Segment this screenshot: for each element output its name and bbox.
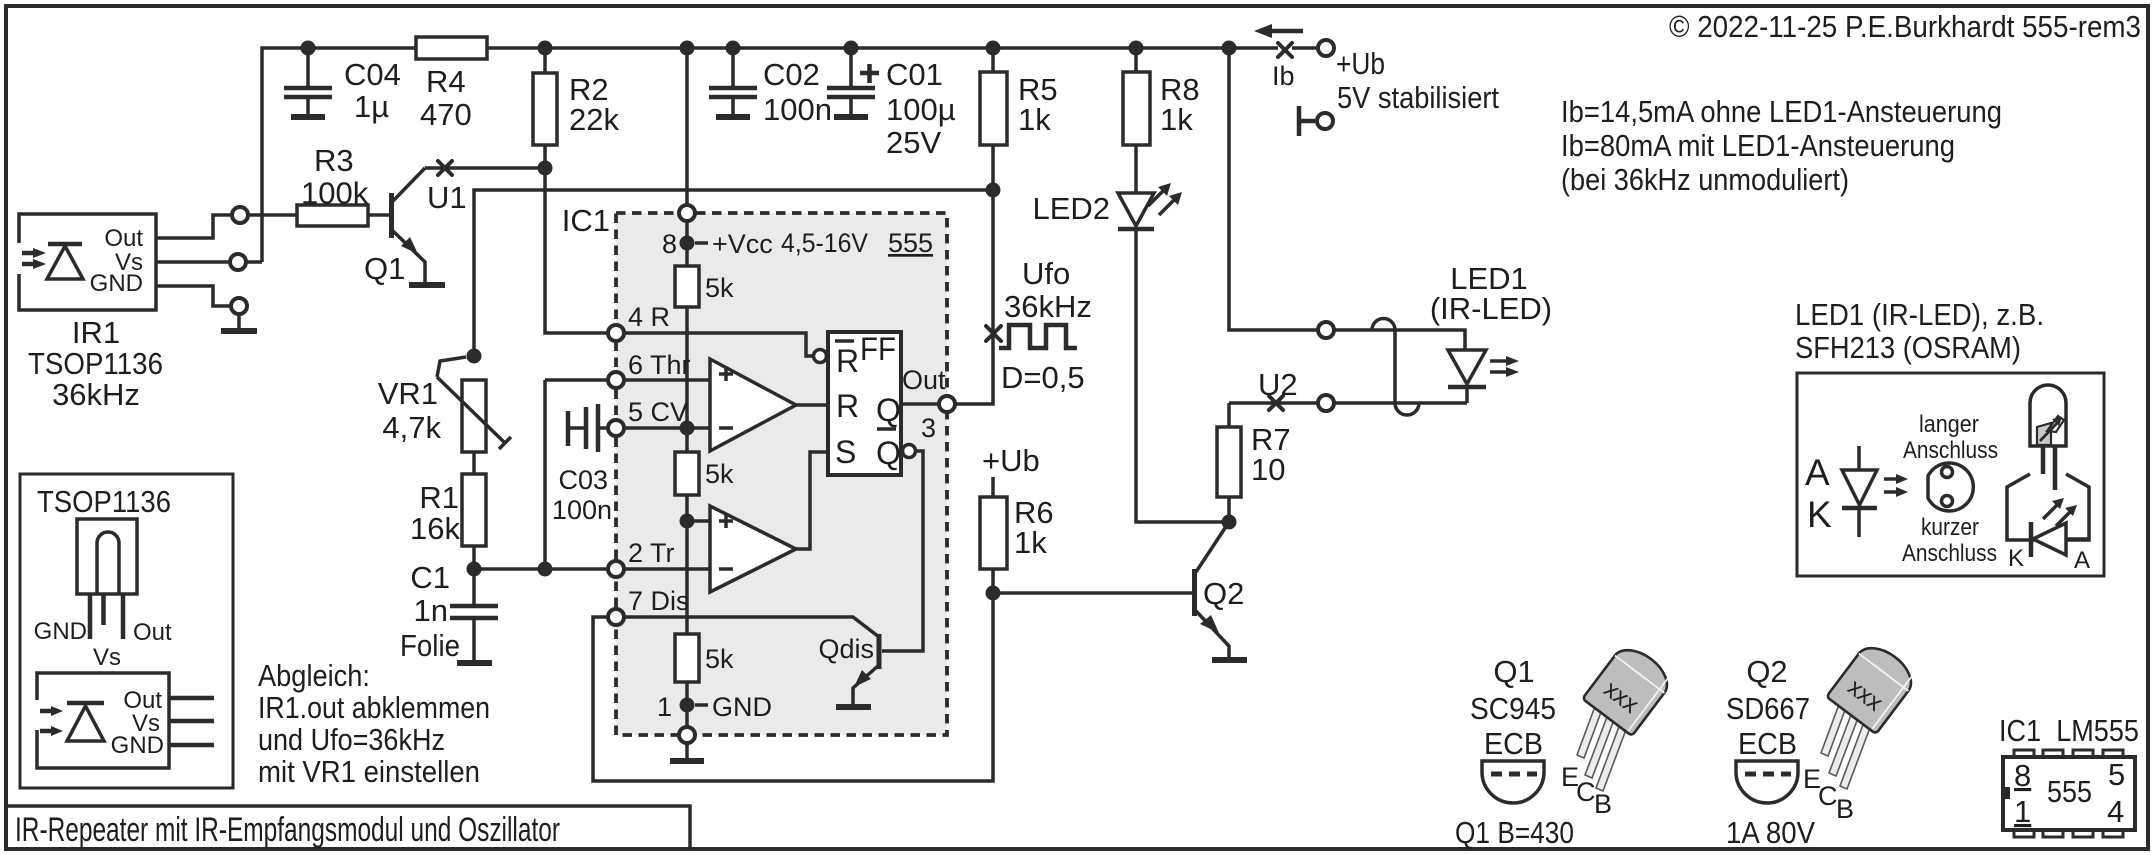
wire pin5 to comp1 minus	[625, 426, 712, 430]
svg-text:GND: GND	[90, 270, 143, 297]
node VR1 top	[467, 349, 482, 364]
node Thr-Tr tie	[538, 562, 553, 577]
node rail-R2	[538, 41, 553, 56]
ground C02	[716, 114, 750, 120]
svg-text:1µ: 1µ	[354, 89, 389, 124]
wire rail to pin8	[685, 48, 689, 205]
svg-text:4: 4	[2107, 794, 2124, 829]
Q2 TO-92 3D view	[1821, 699, 1874, 789]
svg-text:C04: C04	[344, 57, 401, 92]
LED LED1 (IR-LED)	[1430, 261, 1552, 403]
svg-text:Abgleich:: Abgleich:	[258, 658, 370, 693]
op-amp comparator 1	[710, 359, 796, 451]
wire pin3 to output node	[955, 190, 993, 404]
op-amp comparator 2	[710, 506, 796, 592]
svg-text:7 Dis: 7 Dis	[628, 586, 690, 616]
terminal LED1 plug upper	[1318, 322, 1334, 338]
wire LED2 cathode down	[1136, 229, 1229, 522]
LED housing side view	[2007, 474, 2090, 574]
svg-text:C03: C03	[558, 465, 608, 495]
svg-text:langer: langer	[1919, 411, 1979, 438]
label kurzer Anschluss	[1902, 514, 1997, 567]
svg-text:TSOP1136: TSOP1136	[28, 346, 163, 381]
LED LED2	[1032, 183, 1182, 229]
ground Qdis emitter	[836, 704, 871, 710]
TSOP package front view	[34, 519, 172, 671]
svg-text:FF: FF	[860, 331, 896, 367]
Q1 TO-92 bottom view	[1482, 761, 1544, 803]
svg-text:+Vcc: +Vcc	[712, 229, 773, 259]
svg-text:GND: GND	[712, 692, 772, 722]
resistor 5k (middle divider)	[675, 452, 734, 495]
wire divider mid-low	[685, 495, 689, 634]
resistor R1	[410, 474, 486, 546]
svg-text:5k: 5k	[705, 459, 734, 489]
measurement point Ib (X mark + arrow)	[1254, 24, 1303, 91]
svg-text:36kHz: 36kHz	[52, 377, 140, 412]
resistor R8	[1123, 48, 1200, 192]
label Ib notes	[1561, 94, 2002, 197]
measurement point Ufo (X mark + square wave)	[986, 256, 1092, 395]
svg-text:Folie: Folie	[400, 628, 460, 663]
TSOP block symbol	[34, 673, 214, 768]
op-amp IC1 555 dashed body	[562, 203, 947, 735]
labels Q2 E C B	[1803, 764, 1854, 824]
svg-text:K: K	[1807, 494, 1832, 535]
svg-text:8: 8	[2014, 758, 2031, 793]
ground Q1 emitter	[409, 282, 445, 288]
svg-text:5: 5	[2108, 757, 2125, 792]
node rail-pin8	[680, 41, 695, 56]
svg-text:1: 1	[2014, 794, 2031, 829]
resistor R2	[533, 48, 619, 168]
svg-text:B: B	[1594, 789, 1612, 819]
svg-text:5V stabilisiert: 5V stabilisiert	[1337, 80, 1499, 115]
capacitor C04	[284, 48, 401, 124]
ground C1	[457, 660, 492, 666]
ground 555 pin1	[670, 743, 704, 761]
svg-text:Q2: Q2	[1746, 654, 1787, 689]
Q2 TO-92 bottom view	[1736, 761, 1798, 803]
svg-text:SC945: SC945	[1470, 691, 1556, 726]
svg-text:10: 10	[1251, 452, 1285, 487]
svg-text:470: 470	[420, 97, 472, 132]
wire LED1 twisted pair crossover	[1393, 330, 1397, 403]
pin 3 terminal	[939, 396, 955, 412]
svg-text:Q: Q	[876, 392, 901, 428]
wire Q1 collector to R2 node	[425, 166, 545, 170]
resistor R7	[1217, 403, 1291, 522]
node CV-divider	[680, 421, 695, 436]
wire pin4 to FF reset	[625, 333, 813, 356]
svg-text:ECB: ECB	[1484, 726, 1543, 761]
title bar	[6, 806, 690, 849]
terminal +Ub	[1318, 40, 1334, 56]
pin 2 terminal	[608, 561, 624, 577]
resistor R5	[980, 48, 1058, 190]
LED bottom view pinout	[1928, 463, 1973, 511]
svg-text:1A 80V: 1A 80V	[1726, 815, 1815, 850]
svg-text:A: A	[2074, 547, 2090, 574]
svg-text:R4: R4	[426, 64, 466, 99]
capacitor C1	[400, 560, 498, 663]
svg-text:C: C	[1576, 777, 1596, 807]
svg-text:(IR-LED): (IR-LED)	[1430, 291, 1552, 326]
node R6-Q2base	[986, 586, 1001, 601]
transistor Qdis	[818, 634, 879, 705]
wire pin6 tie line	[543, 380, 547, 569]
label Abgleich instructions	[258, 658, 490, 789]
wire FF Qbar to Qdis base	[882, 451, 923, 651]
svg-text:100n: 100n	[763, 92, 832, 127]
svg-text:6 Thr: 6 Thr	[628, 350, 691, 380]
pin 5 terminal	[608, 420, 624, 436]
wire Out terminal to R3	[249, 213, 297, 217]
TSOP1136 detail box	[20, 474, 233, 788]
svg-text:SD667: SD667	[1726, 691, 1810, 726]
svg-text:und Ufo=36kHz: und Ufo=36kHz	[258, 722, 445, 757]
svg-text:Q1: Q1	[364, 251, 405, 286]
svg-text:LED1 (IR-LED), z.B.: LED1 (IR-LED), z.B.	[1795, 297, 2044, 332]
transistor Q2 package info	[1726, 654, 1810, 761]
svg-text:Qdis: Qdis	[818, 634, 874, 664]
svg-text:K: K	[2008, 545, 2024, 572]
node rail-R8	[1129, 41, 1144, 56]
svg-text:Ib: Ib	[1272, 61, 1295, 91]
terminal IR1-Vs	[230, 254, 246, 270]
svg-text:5k: 5k	[705, 644, 734, 674]
svg-text:5k: 5k	[705, 273, 734, 303]
node R2-bottom	[538, 161, 553, 176]
capacitor C02	[709, 48, 832, 127]
svg-text:mit VR1 einstellen: mit VR1 einstellen	[258, 754, 480, 789]
svg-text:VR1: VR1	[378, 376, 438, 411]
svg-text:(bei 36kHz unmoduliert): (bei 36kHz unmoduliert)	[1561, 162, 1849, 197]
resistor R4	[416, 37, 487, 132]
svg-text:IC1 LM555: IC1 LM555	[1999, 713, 2139, 748]
svg-text:GND: GND	[111, 732, 164, 759]
pin 1 terminal	[679, 727, 695, 743]
capacitor C01 (electrolytic)	[827, 48, 956, 160]
svg-text:4,5-16V: 4,5-16V	[781, 228, 868, 258]
node R5-output	[986, 183, 1001, 198]
wire rail to LED1 plug upper	[1229, 48, 1317, 330]
svg-text:© 2022-11-25 P.E.Burkhardt 555: © 2022-11-25 P.E.Burkhardt 555-rem3	[1669, 9, 2141, 44]
svg-text:Vs: Vs	[93, 644, 121, 671]
pin 4 terminal	[608, 325, 624, 341]
node rail-C04	[301, 41, 316, 56]
svg-text:Q1 B=430: Q1 B=430	[1455, 815, 1574, 850]
svg-text:TSOP1136: TSOP1136	[37, 484, 171, 519]
svg-text:5 CV: 5 CV	[628, 397, 688, 427]
LED1 detail box	[1797, 373, 2104, 576]
pin 7 terminal	[608, 609, 624, 625]
svg-text:C1: C1	[410, 560, 450, 595]
label langer Anschluss	[1903, 411, 1998, 464]
svg-text:Q2: Q2	[1203, 576, 1244, 611]
wire Q2 base	[993, 591, 1192, 595]
IC1 DIP-8 package	[2003, 750, 2135, 837]
svg-text:Out: Out	[133, 619, 172, 646]
wire R2 node to 555 pin4	[545, 168, 607, 333]
svg-text:+Ub: +Ub	[982, 443, 1040, 478]
svg-text:IR1: IR1	[72, 315, 120, 350]
wire pin6 left	[545, 378, 607, 382]
node rail-LED1feed	[1222, 41, 1237, 56]
svg-text:100µ: 100µ	[886, 92, 956, 127]
svg-text:ECB: ECB	[1738, 726, 1797, 761]
svg-text:Ib=14,5mA ohne LED1-Ansteuerun: Ib=14,5mA ohne LED1-Ansteuerung	[1561, 94, 2002, 129]
svg-text:S: S	[835, 434, 856, 470]
transistor Q1 package info	[1470, 654, 1556, 761]
svg-text:16k: 16k	[410, 511, 460, 546]
svg-text:1k: 1k	[1018, 102, 1051, 137]
svg-text:Ufo: Ufo	[1022, 256, 1070, 291]
svg-text:Anschluss: Anschluss	[1903, 437, 1998, 464]
svg-text:IR1.out abklemmen: IR1.out abklemmen	[258, 690, 490, 725]
pin 3 Out label	[902, 365, 946, 443]
wire divider node to comp2 plus	[687, 519, 712, 523]
trimmer VR1 4,7k	[378, 357, 511, 452]
capacitor C03	[552, 404, 612, 525]
label IR1 TSOP1136 36kHz	[28, 315, 163, 412]
svg-text:IR-Repeater mit IR-Empfangsmod: IR-Repeater mit IR-Empfangsmodul und Osz…	[15, 811, 560, 849]
svg-text:1n: 1n	[414, 593, 448, 628]
svg-text:Q1: Q1	[1493, 654, 1534, 689]
svg-text:4,7k: 4,7k	[382, 410, 441, 445]
svg-text:555: 555	[888, 228, 933, 258]
measurement point U2 (X mark)	[1229, 367, 1317, 410]
svg-text:1k: 1k	[1160, 102, 1193, 137]
label LED1 detail heading	[1795, 297, 2044, 365]
resistor 5k (upper divider)	[675, 266, 734, 307]
svg-text:U2: U2	[1258, 367, 1298, 402]
node rail-C02	[726, 41, 741, 56]
svg-text:B: B	[1836, 794, 1854, 824]
pin 1 GND label	[657, 682, 772, 727]
svg-text:SFH213 (OSRAM): SFH213 (OSRAM)	[1795, 330, 2021, 365]
transistor Q2	[1195, 522, 1245, 659]
transistor Q1	[364, 168, 425, 286]
ground IR1	[221, 314, 257, 331]
ground C04	[291, 114, 325, 120]
wire LED1 upper lead with hop	[1335, 319, 1465, 351]
wire FF Q to pin3	[901, 402, 938, 406]
labels Q1 E C B	[1561, 762, 1612, 819]
svg-text:Ib=80mA mit LED1-Ansteuerung: Ib=80mA mit LED1-Ansteuerung	[1561, 128, 1955, 163]
svg-text:C02: C02	[763, 57, 820, 92]
photodiode symbol in IR1	[22, 244, 83, 279]
flip-flop FF	[814, 331, 916, 475]
svg-text:1: 1	[657, 692, 672, 722]
svg-text:R3: R3	[314, 143, 354, 178]
svg-text:555: 555	[2047, 774, 2092, 809]
svg-text:U1: U1	[427, 180, 467, 215]
node rail-R5	[986, 41, 1001, 56]
svg-text:8: 8	[662, 229, 677, 259]
svg-text:100n: 100n	[552, 495, 612, 525]
node divider-comp2	[680, 514, 695, 529]
svg-text:Out: Out	[104, 225, 143, 252]
wire pin7 to Qdis collector	[625, 617, 879, 637]
terminal LED1 plug lower	[1318, 395, 1334, 411]
resistor R6	[980, 477, 1054, 593]
svg-text:Anschluss: Anschluss	[1902, 540, 1997, 567]
svg-text:3: 3	[921, 413, 936, 443]
wire LED1 lower lead with hop	[1335, 403, 1467, 415]
svg-text:4 R: 4 R	[628, 302, 670, 332]
wire divider upper-mid	[685, 307, 689, 452]
svg-text:kurzer: kurzer	[1921, 514, 1979, 541]
wire R1 to C1 node	[472, 546, 476, 569]
wire comp2 out to FF S	[796, 452, 828, 549]
svg-text:R1: R1	[419, 480, 459, 515]
wire IR1 GND pin	[156, 286, 230, 306]
ground C01	[834, 114, 868, 120]
IR receiver module IR1 box	[16, 214, 156, 310]
pin 8 +Vcc label	[662, 221, 773, 266]
svg-text:GND: GND	[34, 618, 87, 645]
terminal IR1-GND	[231, 298, 247, 314]
svg-text:A: A	[1805, 452, 1830, 493]
svg-text:100k: 100k	[301, 176, 369, 211]
wire C1 node to pin2	[474, 567, 607, 571]
svg-text:36kHz: 36kHz	[1004, 289, 1092, 324]
svg-text:1k: 1k	[1014, 525, 1047, 560]
svg-text:D=0,5: D=0,5	[1001, 360, 1085, 395]
svg-text:IC1: IC1	[562, 203, 610, 238]
terminal IR1-Out	[232, 207, 248, 223]
svg-text:25V: 25V	[886, 125, 941, 160]
wire IR1 Out pin	[156, 215, 231, 238]
svg-text:22k: 22k	[569, 102, 619, 137]
pin 8 terminal	[679, 205, 695, 221]
node C1 top	[467, 562, 482, 577]
node rail-C01	[844, 41, 859, 56]
wire pin7 discharge route (bottom)	[593, 593, 993, 781]
svg-text:Q: Q	[876, 435, 901, 471]
wire pin2 to comp2 minus	[625, 567, 712, 571]
wire comp1 out to FF R	[796, 403, 828, 407]
ground Q2 emitter	[1212, 657, 1247, 663]
LED symbol in detail box	[1805, 446, 1908, 537]
svg-text:C01: C01	[886, 57, 943, 92]
svg-text:R: R	[836, 343, 859, 379]
wire +5V top rail	[262, 48, 1317, 262]
LED physical package drawing	[2030, 385, 2066, 490]
wire pin6 to comp1 plus	[625, 378, 712, 382]
wire VR1 to R1	[472, 452, 476, 474]
pin 6 terminal	[608, 372, 624, 388]
resistor 5k (lower divider)	[675, 634, 734, 682]
Q1 TO-92 3D view	[1577, 701, 1630, 791]
label +Ub 5V stabilisiert	[1336, 46, 1499, 115]
wire Vs terminal to rail drop	[247, 260, 262, 264]
terminal 0V	[1299, 106, 1333, 136]
svg-text:2 Tr: 2 Tr	[628, 538, 675, 568]
svg-text:LED2: LED2	[1032, 191, 1110, 226]
svg-text:C: C	[1818, 781, 1838, 811]
resistor R3	[297, 143, 369, 226]
svg-text:Out: Out	[902, 365, 946, 395]
svg-text:R: R	[836, 388, 859, 424]
svg-text:+Ub: +Ub	[1336, 46, 1385, 81]
node R7-Q2 collector	[1222, 515, 1237, 530]
wire output feedback to VR1	[474, 190, 993, 356]
measurement point U1 (X mark)	[427, 161, 467, 215]
wire IR1 Vs pin	[156, 260, 230, 264]
